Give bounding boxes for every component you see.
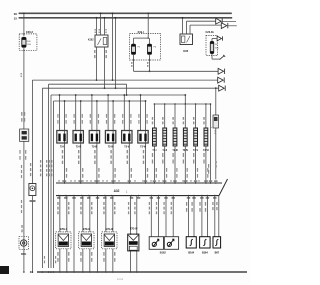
svg-text:15A: 15A — [27, 43, 31, 46]
svg-text:X7023: X7023 — [117, 279, 124, 281]
svg-text:E7G-IV: E7G-IV — [130, 228, 138, 230]
svg-text:B164: B164 — [188, 252, 194, 255]
svg-text:K95: K95 — [183, 49, 188, 53]
svg-text:30: 30 — [14, 12, 18, 16]
svg-text:C20-2: C20-2 — [26, 30, 34, 34]
svg-text:T5-III: T5-III — [92, 147, 98, 149]
svg-text:E7G-II: E7G-II — [83, 228, 90, 231]
svg-text:X19-I: X19-I — [138, 30, 144, 34]
svg-text:30A: 30A — [215, 46, 219, 49]
svg-text:B164: B164 — [202, 252, 208, 255]
svg-text:15: 15 — [14, 16, 18, 20]
svg-text:T5-VI: T5-VI — [140, 147, 146, 149]
svg-text:A32: A32 — [114, 189, 120, 193]
svg-text:E7G-I: E7G-I — [60, 228, 67, 231]
svg-text:T5-I: T5-I — [60, 147, 64, 149]
svg-text:B67: B67 — [215, 252, 220, 255]
svg-text:T5-II: T5-II — [76, 147, 81, 149]
svg-text:T5-IV: T5-IV — [108, 147, 114, 149]
svg-text:B162: B162 — [160, 252, 167, 255]
svg-text:B7G: B7G — [21, 253, 26, 256]
svg-text:C20-4b: C20-4b — [206, 31, 215, 34]
svg-text:T5-V: T5-V — [124, 147, 129, 149]
svg-text:K102: K102 — [88, 40, 94, 42]
svg-text:E7G-III: E7G-III — [106, 228, 114, 231]
